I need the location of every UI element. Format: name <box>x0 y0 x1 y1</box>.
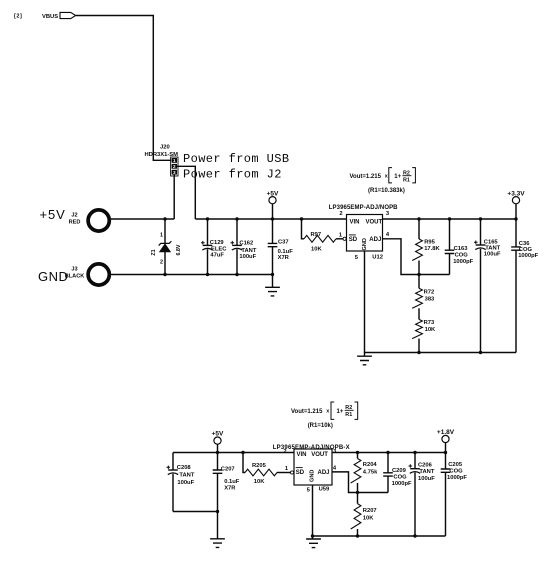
svg-text:10K: 10K <box>254 479 265 485</box>
connector J3 (BLACK) <box>38 264 109 285</box>
junction R95 top <box>417 217 420 220</box>
svg-text:R1: R1 <box>345 412 352 418</box>
junction U59 GND at rail <box>311 534 314 537</box>
svg-text:2: 2 <box>339 211 342 217</box>
svg-text:R1: R1 <box>403 178 410 184</box>
wire U59 VOUT rail to +1.8V <box>332 452 446 454</box>
resistor R72 383 <box>412 275 435 309</box>
svg-text:VOUT: VOUT <box>366 220 383 226</box>
svg-text:C129: C129 <box>210 240 225 246</box>
svg-text:U12: U12 <box>372 254 383 260</box>
resistor R205 10K <box>243 453 291 486</box>
capacitor C207 0.1uF X7R <box>213 453 240 512</box>
power +3.3V <box>507 190 525 219</box>
power +5V (bottom section) <box>212 431 224 453</box>
svg-text:X7R: X7R <box>224 486 236 492</box>
wire J3 ground rail <box>111 274 273 276</box>
svg-text:3: 3 <box>173 170 176 175</box>
capacitor C208 TANT 100uF <box>167 453 195 512</box>
note Power from USB <box>183 152 289 166</box>
zener diode Z1 6.8V <box>151 219 182 275</box>
svg-text:RED: RED <box>69 220 81 226</box>
wire U12 VOUT rail to +3.3V <box>383 218 517 220</box>
svg-text:0.1uF: 0.1uF <box>224 479 240 485</box>
junction C205 top / +1.8V stub <box>444 451 447 454</box>
capacitor C37 0.1uF X7R <box>268 219 293 275</box>
svg-text:Z1: Z1 <box>151 249 157 255</box>
capacitor C205 COG 1000pF <box>441 453 468 537</box>
svg-text:+5V: +5V <box>40 207 66 222</box>
resistor R207 10K <box>351 493 377 537</box>
power +5V (top section) <box>267 190 279 219</box>
wire J20 pin 2 to +5V rail <box>177 166 195 219</box>
svg-text:1: 1 <box>160 232 163 238</box>
wire C208/C207 bottom rail <box>173 511 218 513</box>
resistor R73 10K <box>412 308 436 352</box>
note Power from J2 <box>183 168 282 182</box>
svg-text:10K: 10K <box>425 327 436 333</box>
svg-text:x: x <box>385 174 388 180</box>
svg-text:2: 2 <box>283 449 286 455</box>
capacitor C129 ELEC 47uF <box>201 219 227 275</box>
svg-text:1000pF: 1000pF <box>453 259 473 265</box>
svg-text:17.8K: 17.8K <box>424 246 440 252</box>
svg-text:Vout=1.215: Vout=1.215 <box>291 409 323 415</box>
junction C209 top <box>386 451 389 454</box>
svg-text:J2: J2 <box>71 213 77 219</box>
svg-text:BLACK: BLACK <box>65 274 85 280</box>
junction C165 top <box>479 217 482 220</box>
svg-text:C206: C206 <box>418 463 433 469</box>
svg-text:2: 2 <box>173 164 176 169</box>
junction C206 top <box>413 451 416 454</box>
wire VBUS to J20 pin 1 <box>76 16 172 161</box>
svg-text:SD: SD <box>349 237 358 243</box>
junction C206 bottom <box>413 534 416 537</box>
junction C165 bottom <box>479 351 482 354</box>
junction zener bottom <box>163 273 166 276</box>
resistor R204 4.75k <box>351 453 378 493</box>
junction C36 top / +3.3V stub <box>514 217 517 220</box>
capacitor C209 COG 1000pF <box>383 453 412 493</box>
svg-text:C162: C162 <box>239 241 253 247</box>
junction R207 bottom <box>356 534 359 537</box>
connector J20 HDR3X1-SM <box>145 145 179 176</box>
svg-text:Power from USB: Power from USB <box>183 152 289 166</box>
junction C207 bottom <box>216 510 219 513</box>
svg-text:[2]: [2] <box>14 14 22 20</box>
svg-text:C208: C208 <box>177 465 192 471</box>
wire bottom +5V rail <box>173 452 294 454</box>
junction R205 stub on +5V rail <box>241 451 244 454</box>
wire U59 ADJ to divider <box>332 472 388 493</box>
junction R204 top <box>356 451 359 454</box>
wire U59 GND / bottom ground rail <box>313 485 446 536</box>
svg-text:+5V: +5V <box>212 431 224 438</box>
svg-text:R72: R72 <box>424 289 435 295</box>
svg-text:X7R: X7R <box>278 255 290 261</box>
svg-text:COG: COG <box>519 247 533 253</box>
formula note Vout (top) <box>350 168 416 195</box>
svg-text:J3: J3 <box>71 267 77 273</box>
svg-text:VBUS: VBUS <box>42 14 58 20</box>
svg-text:U59: U59 <box>319 486 330 492</box>
svg-text:1+: 1+ <box>394 174 401 180</box>
junction C162 top <box>235 217 238 220</box>
wire J2 to zener / J20 pin 3 <box>111 218 174 220</box>
svg-text:2: 2 <box>160 260 163 266</box>
wire U12 ADJ to divider <box>383 239 450 275</box>
svg-text:TANT: TANT <box>419 469 434 475</box>
svg-text:C165: C165 <box>484 239 499 245</box>
svg-text:R97: R97 <box>311 232 322 238</box>
svg-text:GND: GND <box>310 470 316 482</box>
svg-text:VIN: VIN <box>350 220 360 226</box>
svg-text:1000pF: 1000pF <box>392 481 412 487</box>
svg-text:C207: C207 <box>221 466 235 472</box>
svg-text:1000pF: 1000pF <box>447 475 467 481</box>
junction R73 bottom <box>417 351 420 354</box>
junction R97 stub on +5V rail <box>300 217 303 220</box>
svg-text:COG: COG <box>393 475 407 481</box>
ground (bottom-left) <box>210 512 225 548</box>
wire J20 pin 3 to J2 rail <box>173 175 175 219</box>
resistor R95 17.8K <box>412 219 440 275</box>
resistor R97 10K <box>302 219 344 253</box>
svg-text:Vout=1.215: Vout=1.215 <box>350 174 382 180</box>
svg-text:VOUT: VOUT <box>311 452 328 458</box>
junction C162 bottom <box>235 273 238 276</box>
junction C207 top / +5V stub <box>216 451 219 454</box>
svg-text:383: 383 <box>425 296 435 302</box>
svg-text:ADJ: ADJ <box>369 237 381 243</box>
wire U12 GND / output ground rail <box>365 251 517 353</box>
svg-text:COG: COG <box>455 252 469 258</box>
svg-text:C205: C205 <box>448 462 463 468</box>
junction R204 bottom / R207 top <box>356 491 359 494</box>
svg-text:+5V: +5V <box>267 190 279 197</box>
junction zener top <box>163 217 166 220</box>
svg-text:(R1=10k): (R1=10k) <box>308 423 333 429</box>
svg-text:ADJ: ADJ <box>318 470 330 476</box>
svg-text:100uF: 100uF <box>484 252 501 258</box>
svg-text:1: 1 <box>173 158 176 163</box>
formula note Vout (bottom) <box>291 402 358 429</box>
svg-text:6.8V: 6.8V <box>176 244 182 255</box>
svg-text:10K: 10K <box>363 516 374 522</box>
connector J2 (RED) <box>40 207 110 231</box>
ground (input section) <box>265 275 280 296</box>
svg-text:Power from J2: Power from J2 <box>183 168 282 182</box>
svg-text:1000pF: 1000pF <box>518 253 538 259</box>
svg-text:1+: 1+ <box>337 409 344 415</box>
svg-text:R204: R204 <box>363 462 378 468</box>
svg-text:R95: R95 <box>424 240 435 246</box>
svg-text:SD: SD <box>296 470 305 476</box>
junction C129 top <box>206 217 209 220</box>
svg-text:4.75k: 4.75k <box>363 470 378 476</box>
junction C129 bottom <box>206 273 209 276</box>
capacitor C206 TANT 100uF <box>409 453 436 537</box>
svg-text:100uF: 100uF <box>177 480 194 486</box>
svg-text:COG: COG <box>449 469 463 475</box>
svg-text:GND: GND <box>362 238 368 250</box>
junction R95 bottom / R72 top <box>417 273 420 276</box>
svg-text:R207: R207 <box>363 508 377 514</box>
svg-text:47uF: 47uF <box>210 252 224 258</box>
junction C37 top / +5V stub <box>271 217 274 220</box>
svg-text:100uF: 100uF <box>239 254 256 260</box>
capacitor C163 COG 1000pF <box>445 219 474 275</box>
wire +5V rail (right of J20) <box>195 218 346 220</box>
svg-text:C37: C37 <box>278 239 289 245</box>
ground (U12 section) <box>357 353 372 365</box>
svg-text:+3.3V: +3.3V <box>507 190 525 197</box>
svg-text:J20: J20 <box>160 145 170 151</box>
svg-text:R205: R205 <box>252 463 267 469</box>
svg-text:10K: 10K <box>311 247 322 253</box>
svg-text:TANT: TANT <box>241 248 256 254</box>
regulator U59 LP3965EMP-ADJ/NOPB-X <box>273 445 350 494</box>
svg-text:TANT: TANT <box>179 473 194 479</box>
svg-text:x: x <box>326 408 329 414</box>
svg-text:(R1=10.383k): (R1=10.383k) <box>368 188 405 194</box>
svg-text:100uF: 100uF <box>418 476 435 482</box>
ground (U59 section) <box>306 536 321 548</box>
regulator U12 LP3965EMP-ADJ/NOPB <box>329 205 398 261</box>
capacitor C165 TANT 100uF <box>474 219 501 353</box>
capacitor C36 COG 1000pF <box>511 219 538 353</box>
power +1.8V <box>437 429 455 452</box>
svg-text:C209: C209 <box>392 468 407 474</box>
capacitor C162 TANT 100uF <box>231 219 257 275</box>
svg-text:VIN: VIN <box>297 452 307 458</box>
svg-text:+1.8V: +1.8V <box>437 429 455 436</box>
net flag VBUS <box>14 12 76 19</box>
junction C37 bottom <box>271 273 274 276</box>
svg-text:R73: R73 <box>424 320 435 326</box>
svg-text:C163: C163 <box>454 246 469 252</box>
junction C163 top <box>448 217 451 220</box>
